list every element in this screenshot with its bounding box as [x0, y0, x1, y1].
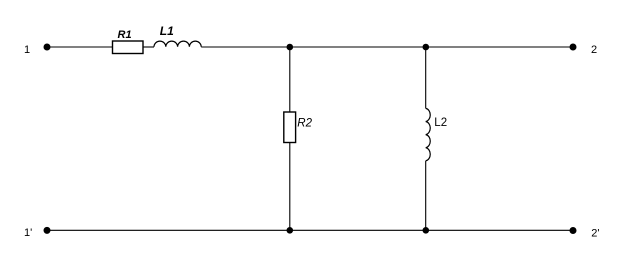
- wire R1 to L1: [143, 46, 154, 48]
- svg-text:R1: R1: [118, 29, 132, 41]
- svg-text:L2: L2: [434, 117, 447, 129]
- wire bottom rail: [50, 229, 570, 231]
- svg-text:2': 2': [591, 227, 599, 239]
- svg-text:1': 1': [24, 227, 32, 239]
- wire R2 branch upper: [289, 47, 291, 112]
- wire L2 branch upper: [425, 47, 427, 108]
- svg-text:L1: L1: [160, 24, 174, 38]
- resistor R2: [284, 112, 296, 143]
- node junction top of R2: [287, 44, 294, 51]
- wire R2 branch lower: [289, 143, 291, 231]
- terminal 1': [44, 227, 51, 234]
- node junction bottom of R2: [287, 227, 294, 234]
- wire top rail left segment (node 1 to R1): [50, 46, 113, 48]
- wire L2 branch lower: [425, 161, 427, 231]
- node junction top of L2: [423, 44, 430, 51]
- svg-text:2: 2: [591, 44, 597, 56]
- svg-text:1: 1: [24, 44, 30, 56]
- resistor R1: [113, 41, 144, 54]
- terminal 2': [570, 227, 577, 234]
- inductor L1: [154, 41, 201, 47]
- svg-text:R2: R2: [297, 118, 312, 130]
- inductor L2: [426, 108, 431, 160]
- terminal 2: [570, 44, 577, 51]
- node junction bottom of L2: [423, 227, 430, 234]
- wire top rail right segment (L1 to node 2): [201, 46, 573, 48]
- terminal 1: [44, 44, 51, 51]
